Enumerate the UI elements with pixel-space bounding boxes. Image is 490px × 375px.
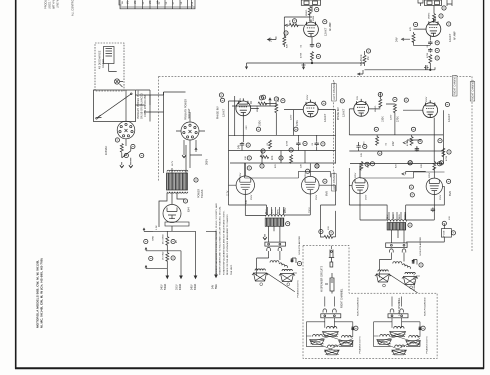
wires around tube V1 — [276, 25, 312, 47]
ground T2 secondary — [263, 234, 267, 240]
cref input bus 2 — [259, 96, 263, 100]
svg-text:250V: 250V — [366, 194, 368, 200]
svg-text:40MA: 40MA — [179, 283, 182, 290]
cref tube V1 — [323, 20, 327, 24]
divider resistor V3 — [275, 104, 278, 113]
cref right edge — [447, 150, 451, 154]
right non-polarized cap — [412, 260, 415, 264]
left speaker A — [252, 269, 268, 281]
svg-text:150V: 150V — [426, 96, 428, 102]
svg-text:12AX7: 12AX7 — [342, 108, 346, 117]
right edge resistor — [442, 148, 445, 157]
fuse box right — [441, 229, 451, 238]
cref bias row 1 — [247, 156, 251, 160]
svg-text:24V: 24V — [396, 37, 399, 42]
svg-text:60MA: 60MA — [194, 283, 197, 290]
lower-right cap — [419, 327, 422, 331]
cref rectifier — [183, 199, 187, 203]
cref fuse — [115, 138, 119, 142]
arrow near socket P2 — [195, 148, 197, 152]
cref tail L — [316, 54, 320, 58]
right channel label top — [470, 79, 475, 101]
svg-text:LEFT CHANNEL: LEFT CHANNEL — [398, 297, 401, 315]
cref filter 2 — [149, 256, 153, 260]
svg-text:AF AMP: AF AMP — [453, 31, 456, 40]
svg-text:22K: 22K — [421, 163, 423, 168]
svg-text:RIGHT CHANNEL: RIGHT CHANNEL — [454, 74, 457, 95]
cref tail R — [435, 56, 439, 60]
grid resistor R — [412, 34, 415, 43]
cref plate resistor R — [439, 14, 443, 18]
lower-right group loop wires — [374, 318, 420, 347]
svg-text:470K: 470K — [301, 52, 303, 58]
svg-text:22K: 22K — [301, 163, 303, 168]
cref decoupling R1 — [363, 144, 367, 148]
top edge connector mark left — [418, 0, 423, 6]
feedback resistor left — [324, 235, 333, 238]
power socket P1 — [117, 121, 135, 139]
output transformer label wires left — [268, 207, 284, 215]
wire to balance line L — [245, 60, 364, 69]
cref grid V8b 2 — [410, 193, 414, 197]
main vertical bus wires to power transformer — [164, 92, 187, 173]
cref output V7a — [247, 166, 251, 170]
svg-text:PHASE INV: PHASE INV — [337, 107, 340, 120]
decoupling cap R2 — [415, 147, 419, 152]
cref right mid row2 d — [437, 162, 441, 166]
power transformer T1 — [167, 170, 188, 193]
svg-text:120V: 120V — [391, 114, 393, 120]
cref filter 3 — [171, 239, 175, 243]
cref decoupling 3 — [321, 142, 325, 146]
decoupling cap 3 — [315, 142, 319, 147]
cref mid row 1 — [256, 127, 260, 131]
svg-text:24V: 24V — [392, 141, 395, 146]
balance wiper arrow — [358, 51, 365, 75]
cref lower-left cap — [354, 326, 358, 330]
svg-text:100K: 100K — [259, 120, 262, 126]
cap at balance junction R — [424, 65, 429, 69]
svg-text:ALL CONTROLS): ALL CONTROLS) — [72, 0, 75, 16]
svg-text:250V: 250V — [440, 194, 442, 200]
right field coil 2 — [402, 263, 411, 268]
tube V4 12AX7 left — [303, 100, 318, 117]
bias resistor left — [269, 140, 272, 149]
cref tube V2 — [447, 22, 451, 26]
wire plate L — [284, 14, 312, 36]
phono motor dashed box — [95, 43, 124, 91]
svg-text:BLU: BLU — [387, 214, 389, 219]
left field coil 2 — [279, 262, 288, 267]
svg-text:M, MC, 5K14B, CW, M, W (Ch. HS: M, MC, 5K14B, CW, M, W (Ch. HS-695, HS-7… — [39, 258, 43, 328]
svg-text:WITH VTVM. NOM: WITH VTVM. NOM — [53, 0, 56, 9]
cref left out top — [315, 164, 319, 168]
lower-right speaker 3 coil — [409, 336, 419, 338]
lower-left speaker 3 cone — [339, 341, 354, 346]
lower-right speaker 4 coil — [395, 345, 405, 347]
wires left channel mid — [229, 96, 336, 164]
svg-text:470K: 470K — [446, 155, 448, 161]
plate resistor V3 — [258, 102, 267, 105]
cref decoupling 2 — [303, 141, 307, 145]
cref transformer T2 — [286, 222, 290, 226]
cref right speaker cap — [419, 263, 423, 267]
lower-right speaker 4 cone — [392, 350, 407, 355]
svg-text:NON-POLARIZED: NON-POLARIZED — [419, 236, 422, 255]
svg-text:270K: 270K — [296, 120, 299, 126]
power socket P2 — [181, 122, 199, 140]
tube location table cell text — [128, 0, 194, 6]
border frame right — [483, 0, 485, 369]
right field coil — [393, 262, 402, 264]
right speaker terminal bar — [386, 243, 407, 248]
svg-text:82K: 82K — [286, 43, 288, 48]
svg-text:47K: 47K — [410, 26, 412, 31]
svg-text:PHASING DOTS: PHASING DOTS — [413, 273, 416, 291]
wire interlock to sockets — [126, 90, 205, 146]
cref grid resistor L — [292, 19, 296, 23]
ground under switch — [129, 162, 133, 168]
cref coupling R2 — [435, 48, 439, 52]
svg-text:12AX7: 12AX7 — [323, 113, 327, 122]
lower-left speaker 2 coil — [313, 335, 323, 337]
svg-text:265V: 265V — [355, 172, 357, 178]
svg-text:THE UNIT.: THE UNIT. — [231, 264, 233, 275]
tube V6 12AX7 right — [423, 100, 438, 117]
cref plug — [140, 153, 144, 157]
svg-text:24V: 24V — [361, 152, 363, 157]
svg-text:LINE VOLTAGE: LINE VOLTAGE — [57, 0, 60, 8]
svg-text:.003: .003 — [246, 125, 248, 130]
left non-polarized cap — [291, 259, 294, 263]
cref bias R1 — [374, 127, 378, 131]
svg-text:12AX7: 12AX7 — [448, 33, 452, 42]
divider resistor V5 — [393, 104, 396, 113]
table cell tick text — [122, 1, 183, 5]
svg-text:NUMBERS ADJACENT TO COILS, SWI: NUMBERS ADJACENT TO COILS, SWITCHES, PLU… — [215, 203, 218, 275]
cref filter 4 — [171, 256, 175, 260]
secondary wires T2 — [269, 226, 280, 242]
svg-text:100K: 100K — [382, 116, 385, 122]
svg-text:GRN: GRN — [405, 214, 407, 219]
cref coupling L1 — [316, 43, 320, 47]
ground near socket P2 — [182, 152, 186, 158]
rectifier tube base — [165, 222, 189, 226]
lower-left speaker 2 cone — [310, 340, 325, 345]
svg-text:CONN 2P4 OR 2B4: CONN 2P4 OR 2B4 — [144, 95, 147, 117]
border frame bottom — [15, 367, 484, 369]
left speaker plug pins 2 — [278, 247, 282, 251]
left speaker group diagonal wire — [257, 270, 297, 292]
svg-text:PHASING DOTS: PHASING DOTS — [358, 336, 361, 354]
cref filter 1 — [144, 239, 148, 243]
ground under fuse — [120, 162, 124, 168]
cref right mid row2 a — [378, 151, 382, 155]
cref right mid row2 c — [408, 161, 412, 165]
svg-text:BALANCE: BALANCE — [360, 54, 363, 66]
output tube V8b 6V6 — [426, 178, 442, 195]
svg-text:250V: 250V — [316, 194, 318, 200]
cref lamp — [124, 153, 128, 157]
phono motor inner box — [104, 47, 117, 72]
left phasing dot a — [260, 283, 263, 286]
cref transformer T3 — [408, 223, 412, 227]
svg-text:USED. VOLTAGES: USED. VOLTAGES — [49, 0, 52, 9]
svg-text:470K: 470K — [427, 52, 429, 58]
svg-text:120V: 120V — [291, 114, 293, 120]
tube V5 12AX7 right — [354, 99, 369, 116]
wires transformer to rectifier — [144, 193, 185, 231]
cref coupling R1 — [435, 41, 439, 45]
cref above V8b — [439, 161, 443, 165]
feedback wires left — [321, 211, 336, 237]
svg-text:4K 10WD: 4K 10WD — [163, 234, 165, 244]
cref bias R2 — [411, 127, 415, 131]
left phasing dot b — [287, 283, 290, 286]
right phasing dot a — [383, 284, 386, 287]
grid resistor L — [290, 24, 299, 27]
secondary wires T3 — [391, 230, 404, 243]
schematic note text block — [215, 203, 233, 275]
cref divider V3 — [274, 97, 278, 101]
grid run wires left channel — [245, 163, 445, 178]
feedback wires right — [406, 224, 444, 242]
cref tube V4 — [322, 101, 326, 105]
cref right mid extra1 — [438, 139, 442, 143]
voltage label 340V 50MA — [162, 283, 167, 290]
svg-text:117V: 117V — [172, 160, 174, 166]
cref feedback left b — [329, 231, 333, 235]
svg-text:PRODUCTION CH: PRODUCTION CH — [45, 0, 48, 9]
right speaker plug pins — [390, 249, 394, 253]
lower-right terminal bar — [388, 314, 408, 318]
svg-text:RED: RED — [393, 214, 395, 219]
svg-text:TRANSFORMERS ARE TO FACILITATE: TRANSFORMERS ARE TO FACILITATE CIRCUIT T… — [219, 206, 222, 275]
plate resistor R top — [433, 14, 436, 23]
svg-text:5B: 5B — [122, 1, 124, 4]
svg-text:12AX7: 12AX7 — [222, 108, 226, 117]
coupling cap R1 — [428, 41, 432, 46]
ground arrow L tail — [302, 63, 306, 69]
right speaker B — [402, 272, 418, 284]
cref left speaker cap — [297, 262, 301, 266]
left channel label mid — [332, 171, 337, 191]
svg-text:NON-POLARIZED: NON-POLARIZED — [298, 235, 301, 254]
top edge connector mark right — [447, 0, 452, 6]
svg-text:1MEG: 1MEG — [428, 12, 430, 19]
amp chassis dashed boundary vertical — [158, 76, 160, 182]
cref bias row 2 — [260, 164, 264, 168]
svg-text:12AX7: 12AX7 — [447, 113, 451, 122]
cref tube V3 — [220, 98, 224, 102]
right speaker group diagonal wire — [379, 272, 420, 293]
right phasing dot b — [410, 286, 413, 289]
svg-text:RIGHT CHANNEL: RIGHT CHANNEL — [341, 288, 344, 308]
cref tube V6 — [445, 102, 449, 106]
svg-text:DENCE ON THE UNIT. VOLTAGES ME: DENCE ON THE UNIT. VOLTAGES MEASURED TO … — [226, 214, 229, 275]
lower-left speaker 4 cone — [325, 350, 340, 355]
cref decoupling R2 — [418, 139, 422, 143]
output tube V8a 6V6 — [352, 178, 368, 194]
svg-text:340V: 340V — [162, 284, 164, 290]
svg-text:6V6: 6V6 — [324, 191, 328, 196]
right speaker wires — [379, 253, 417, 271]
cref tube V5 — [340, 99, 344, 103]
right input jack box — [425, 0, 442, 14]
tail resistor coil L — [311, 52, 314, 61]
tube V2 12AX7 R — [426, 19, 441, 36]
svg-text:BRN: BRN — [278, 209, 280, 214]
balance pot resistor — [363, 55, 366, 64]
left field coil — [270, 261, 279, 263]
cref grid resistor R — [414, 22, 418, 26]
speaker circuits dashed box — [303, 245, 437, 358]
svg-text:265V: 265V — [429, 172, 431, 178]
svg-text:1MEG: 1MEG — [306, 9, 308, 16]
svg-text:TRANS: TRANS — [201, 189, 204, 198]
left speaker B — [279, 269, 295, 281]
amp chassis dashed boundary horizontal — [159, 75, 472, 77]
resistor above V8b — [433, 161, 436, 170]
svg-text:5MA: 5MA — [215, 284, 218, 289]
lower-left speaker 3 coil — [342, 336, 352, 338]
cref mid above V8 — [408, 161, 412, 165]
input bus wire top mid — [229, 98, 277, 168]
svg-text:22K: 22K — [271, 155, 274, 160]
fuse under socket P1 — [120, 144, 123, 153]
arrow 24V R — [402, 38, 411, 40]
svg-text:PHASE INV: PHASE INV — [217, 106, 220, 119]
svg-text:245V: 245V — [192, 284, 194, 290]
rectifier tube V9 — [163, 205, 181, 223]
svg-text:NON-POLARIZED: NON-POLARIZED — [356, 297, 359, 316]
cref mid row 2 — [294, 127, 298, 131]
svg-text:250V: 250V — [251, 194, 253, 200]
lower-left speaker 1 coil — [327, 326, 337, 328]
lower-right speaker 3 cone — [406, 341, 421, 346]
decoupling cap 1 — [240, 142, 244, 147]
B+ distribution rails and drop wires — [143, 228, 217, 278]
phono motor pilot lamp — [114, 79, 123, 87]
svg-text:FUSE: FUSE — [444, 230, 446, 237]
lower-left group diagonals — [310, 334, 353, 352]
svg-text:24V: 24V — [213, 284, 215, 289]
svg-text:150V: 150V — [307, 94, 309, 100]
left speaker terminal bar — [265, 242, 286, 246]
lower-left terminal bar — [321, 314, 341, 318]
svg-text:HI SPEAKER CIRCUITS: HI SPEAKER CIRCUITS — [321, 265, 324, 292]
left speaker plug pins — [267, 247, 271, 251]
lower-left speaker 1 cone — [322, 332, 338, 337]
svg-text:BRN: BRN — [153, 235, 155, 240]
svg-text:V10: V10 — [192, 1, 194, 6]
cref interstage left — [261, 149, 265, 153]
cref balance — [366, 49, 370, 53]
left input jack box — [301, 0, 320, 12]
svg-text:365V: 365V — [206, 159, 209, 165]
svg-text:RED: RED — [272, 209, 274, 214]
plate resistor V5 — [379, 99, 382, 108]
cref input L — [315, 8, 319, 12]
svg-text:.003: .003 — [364, 141, 366, 146]
cref mid2 — [404, 98, 408, 102]
svg-text:115VAC: 115VAC — [105, 146, 108, 155]
lower-left speaker group plug b — [333, 309, 337, 313]
lower-right speaker group plug b — [400, 309, 404, 313]
B+ filter resistor 1 — [166, 237, 169, 246]
decoupling cap 2 — [296, 142, 300, 147]
cref bias row 3 — [279, 156, 283, 160]
svg-text:470K: 470K — [287, 140, 289, 146]
right speaker plug pins 2 — [402, 249, 406, 253]
cref divider V5 — [393, 97, 397, 101]
svg-text:24V: 24V — [239, 144, 241, 149]
lower-left cap — [351, 327, 354, 331]
svg-text:10K: 10K — [245, 155, 247, 160]
border frame left — [15, 0, 17, 369]
interstage resistor h left — [260, 156, 269, 159]
voltage label 245V 60MA — [192, 283, 197, 290]
svg-text:GUARD: GUARD — [102, 59, 105, 68]
B+ filter resistor 2 — [166, 253, 169, 262]
cref plate V5 — [378, 92, 382, 96]
svg-text:PONENT REPLACEMENT AIDS ARE NO: PONENT REPLACEMENT AIDS ARE NOT NECESSAR… — [222, 210, 225, 275]
output transformer label wires right — [389, 212, 405, 220]
svg-text:NON-POLARIZED: NON-POLARIZED — [424, 297, 427, 316]
output transformer T2 left — [265, 215, 285, 227]
cref input bus 1 — [219, 93, 223, 97]
cref switch — [131, 144, 135, 148]
lower-right speaker 1 cone — [390, 332, 406, 337]
svg-text:50MA: 50MA — [164, 283, 167, 290]
tail resistor R — [429, 55, 432, 64]
svg-text:GRN: GRN — [284, 209, 286, 214]
cref interstage left2 — [289, 148, 293, 152]
lower-right group diagonals — [377, 334, 420, 352]
left channel label top — [332, 81, 337, 101]
decoupling cap R1 — [356, 144, 360, 149]
tube V3 12AX7 left — [236, 98, 251, 115]
cathode resistor L — [283, 36, 286, 45]
cref right mid row2 b — [370, 162, 374, 166]
svg-text:BRN: BRN — [399, 214, 401, 219]
output transformer T3 right — [387, 220, 406, 230]
svg-text:1K 5WD: 1K 5WD — [163, 251, 165, 260]
bias resistor R2 — [410, 137, 413, 146]
cref lower-right cap — [421, 326, 425, 330]
lower group feed stubs — [325, 246, 402, 307]
svg-text:6V6: 6V6 — [448, 191, 452, 196]
cref input bus 3 — [281, 99, 285, 103]
channel separator dashed mid — [332, 80, 334, 178]
bias resistor R1 — [376, 137, 379, 146]
svg-text:SOCKET: SOCKET — [188, 108, 191, 119]
wires output stage left — [229, 163, 336, 215]
lower-left group loop wires — [306, 318, 352, 347]
svg-text:LEFT CHANNEL: LEFT CHANNEL — [333, 81, 336, 100]
svg-text:6X4: 6X4 — [187, 207, 191, 212]
cref feedback left a — [319, 230, 323, 234]
cref plate V3 — [262, 95, 266, 99]
cref cathode L — [284, 31, 288, 35]
arrow grid L — [285, 24, 289, 26]
right speaker A — [375, 270, 391, 282]
cref power transformer — [194, 178, 198, 182]
voltage label 300V 40MA — [177, 283, 182, 290]
svg-text:2M: 2M — [367, 57, 370, 60]
svg-text:1.2K: 1.2K — [156, 225, 158, 230]
headphone jack upper — [329, 250, 334, 268]
